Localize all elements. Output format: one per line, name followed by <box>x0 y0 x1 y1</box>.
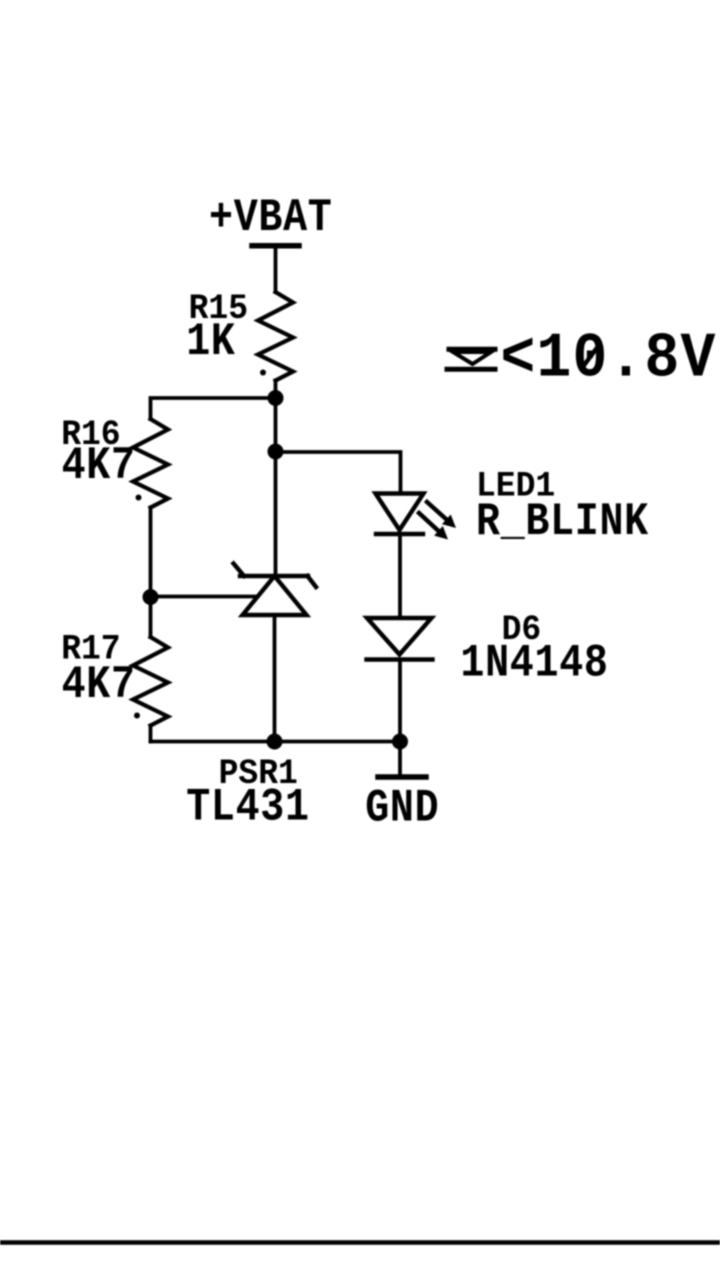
wire LED1 to D6 <box>398 534 402 618</box>
wire node C to LED1 top <box>276 452 401 494</box>
wire node A down to node C <box>274 398 278 452</box>
svg-text:1K: 1K <box>186 316 235 368</box>
wire +VBAT to R15 <box>274 246 278 292</box>
node B junction dot <box>143 589 159 605</box>
LED LED1 arrow 1 <box>427 502 456 528</box>
svg-text:4K7: 4K7 <box>62 659 136 711</box>
wire R16 to node B <box>149 508 153 598</box>
svg-text:1N4148: 1N4148 <box>460 637 608 689</box>
node C junction dot <box>268 444 284 460</box>
resistor R15 <box>258 292 293 381</box>
resistor R16 <box>133 419 168 508</box>
wire node B to R17 top <box>149 597 153 637</box>
ground symbol bar <box>378 774 426 780</box>
node D junction dot on rail <box>267 734 283 750</box>
svg-text:<10.8V: <10.8V <box>501 325 717 396</box>
pin marker dot R17 <box>134 713 140 719</box>
pin marker dot R15 <box>260 370 266 376</box>
wire R17 to ground rail <box>149 726 153 742</box>
wire node A to R16 top <box>151 398 276 419</box>
pin marker dot R16 <box>136 495 142 501</box>
annotation battery symbol top bar <box>449 347 495 352</box>
power +VBAT bar symbol <box>252 243 299 249</box>
wire node C to TL431 cathode <box>274 452 278 577</box>
ground symbol stub <box>398 742 402 775</box>
annotation slashed zero stroke <box>582 345 599 368</box>
svg-text:4K7: 4K7 <box>62 440 136 492</box>
op-amp U1 TL431 PSR1 symbol <box>234 564 317 616</box>
LED LED1 triangle <box>376 494 424 531</box>
wire R15 to node A <box>274 381 278 399</box>
LED LED1 arrow 2 <box>419 513 448 540</box>
resistor R17 <box>133 637 168 726</box>
node A junction dot <box>268 390 284 406</box>
wire ground rail <box>151 740 401 744</box>
diode D6 cathode bar <box>367 657 433 661</box>
svg-text:GND: GND <box>365 782 439 834</box>
svg-text:TL431: TL431 <box>186 781 309 833</box>
annotation battery symbol triangle <box>453 352 491 364</box>
node E junction dot GND <box>392 734 408 750</box>
svg-text:R_BLINK: R_BLINK <box>476 496 649 548</box>
annotation battery symbol bottom bar <box>447 367 495 372</box>
frame border line bottom <box>0 1240 720 1245</box>
wire TL431 anode to ground rail <box>273 615 277 742</box>
LED LED1 cathode bar <box>376 532 423 536</box>
diode D6 triangle <box>367 618 432 655</box>
svg-text:+VBAT: +VBAT <box>209 192 332 244</box>
wire node B to TL431 reference <box>151 595 260 599</box>
wire D6 to ground rail <box>398 660 402 742</box>
